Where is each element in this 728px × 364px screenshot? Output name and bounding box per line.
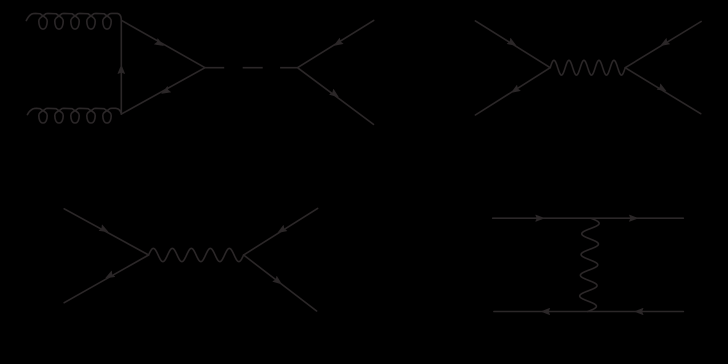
photon wavy propagator (top-right)	[550, 60, 625, 75]
gluon g2 (bottom incoming)	[27, 108, 121, 123]
quark loop top edge	[121, 20, 205, 67]
arrow right 2	[629, 215, 637, 221]
arrow lower right	[330, 89, 339, 97]
outgoing fermion lower-right	[244, 255, 317, 311]
arrow in-1	[99, 225, 108, 232]
outgoing fermion lower-right	[625, 68, 701, 114]
arrow up on left edge	[118, 65, 125, 73]
gluon g1 (top incoming)	[26, 13, 121, 29]
outgoing antifermion (lower right)	[298, 68, 374, 125]
quark loop bottom edge	[121, 68, 205, 114]
arrow out-1	[278, 225, 287, 232]
arrow in-1	[507, 38, 516, 45]
incoming antifermion lower-left	[64, 255, 148, 303]
photon wavy propagator (vertical)	[580, 218, 599, 311]
fermion top line	[493, 217, 684, 219]
higgs dashed propagator	[205, 67, 298, 69]
arrow out-1	[661, 39, 670, 46]
arrow in-2	[106, 271, 115, 278]
photon wavy propagator (bottom-left)	[149, 248, 244, 261]
arrow on top edge	[155, 39, 164, 46]
arrow left 2	[635, 308, 643, 314]
incoming fermion upper-left	[475, 21, 550, 68]
arrow out-2	[657, 84, 666, 91]
fermion bottom line	[494, 311, 684, 313]
outgoing fermion (upper right)	[298, 20, 374, 67]
arrow out-2	[273, 276, 282, 284]
arrow in-2	[512, 85, 521, 92]
incoming antifermion lower-left	[475, 68, 550, 115]
incoming fermion upper-left	[64, 209, 148, 255]
outgoing antifermion upper-right	[244, 208, 318, 255]
arrow left 1	[541, 308, 549, 314]
arrow upper right	[334, 38, 343, 45]
quark loop left edge	[120, 20, 122, 114]
arrow right 1	[536, 215, 544, 221]
arrow on bottom edge	[162, 87, 171, 94]
outgoing antifermion upper-right	[625, 22, 701, 68]
